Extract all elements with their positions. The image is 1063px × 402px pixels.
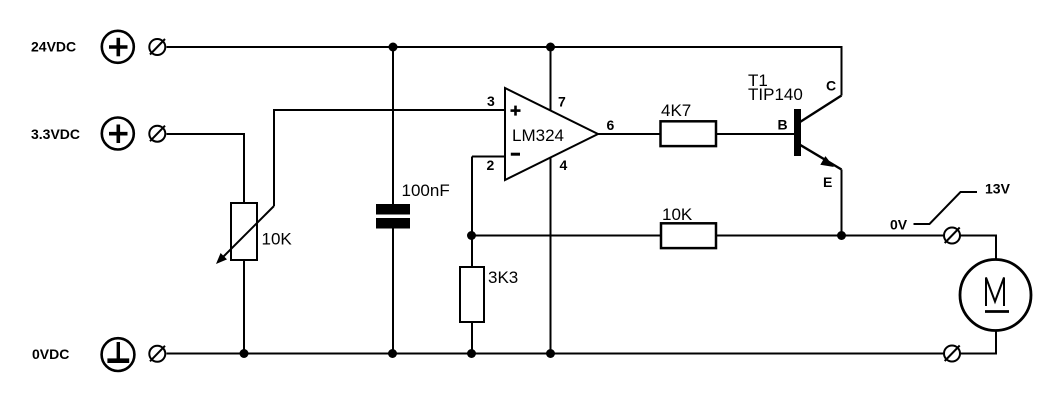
wire 10K to emitter node — [716, 235, 842, 237]
junction dot bottom rail / 3K3 — [467, 349, 476, 358]
wire emitter down to output node — [841, 170, 843, 236]
wire pin 7 to top rail — [550, 47, 552, 111]
wire op-amp output pin 6 — [598, 133, 660, 135]
junction dot bottom rail / potentiometer — [240, 349, 249, 358]
wire motor bottom to 0V pad — [961, 331, 997, 354]
svg-text:E: E — [823, 174, 832, 190]
svg-text:LM324: LM324 — [512, 126, 564, 145]
wire 24VDC top rail — [167, 46, 842, 48]
wire 3K3 bottom to 0V rail — [471, 322, 473, 354]
svg-text:6: 6 — [607, 117, 615, 133]
svg-text:4: 4 — [560, 157, 568, 173]
power terminal + (3.3VDC) — [102, 118, 134, 150]
op-amp U1 LM324 triangle — [505, 88, 598, 180]
wire output pad to motor top — [961, 236, 997, 260]
power terminal + (24VDC) — [102, 31, 134, 63]
wire pin 2 input — [472, 156, 505, 158]
wire 0V bottom rail — [167, 353, 945, 355]
svg-text:10K: 10K — [662, 205, 693, 224]
wire wiper to op-amp pin 3 — [274, 110, 505, 206]
svg-text:3K3: 3K3 — [488, 268, 518, 287]
svg-text:C: C — [826, 78, 836, 94]
op-amp + input mark — [511, 106, 521, 116]
op-amp - input mark — [511, 153, 520, 156]
svg-text:3: 3 — [487, 93, 495, 109]
svg-text:TIP140: TIP140 — [748, 85, 803, 104]
junction dot top rail / capacitor — [389, 43, 398, 52]
wire pin 2 down to feedback node — [471, 157, 473, 268]
svg-text:2: 2 — [487, 157, 495, 173]
wire potentiometer bottom to 0V rail — [243, 260, 245, 354]
wire capacitor top lead — [392, 47, 394, 204]
junction dot bottom rail / pin 4 — [546, 349, 555, 358]
connector pad 3.3VDC — [149, 126, 165, 142]
potentiometer R 10K body — [231, 203, 257, 260]
wire 3.3VDC to potentiometer — [167, 134, 245, 203]
ground terminal (0VDC) — [102, 338, 135, 371]
svg-text:13V: 13V — [985, 181, 1011, 197]
resistor 4K7 body — [661, 121, 717, 146]
wire output node to 0V pad — [842, 235, 945, 237]
svg-text:B: B — [778, 117, 788, 133]
junction dot bottom rail / capacitor — [388, 349, 397, 358]
wire collector to top rail — [841, 46, 843, 96]
junction dot emitter / output — [837, 231, 846, 240]
wire capacitor bottom lead — [392, 229, 394, 354]
connector pad bottom return — [944, 346, 960, 362]
svg-text:0V: 0V — [890, 217, 908, 233]
svg-text:10K: 10K — [262, 230, 293, 249]
svg-text:100nF: 100nF — [402, 181, 450, 200]
transistor Q T1 TIP140 — [794, 96, 842, 170]
resistor 3K3 body — [460, 267, 484, 322]
output range indicator 0V-13V — [914, 192, 978, 224]
junction dot top rail / pin 7 — [546, 43, 555, 52]
junction dot feedback node — [467, 231, 476, 240]
connector pad 0VDC — [149, 346, 165, 362]
svg-text:0VDC: 0VDC — [32, 346, 69, 362]
connector pad output — [944, 228, 960, 244]
motor M — [960, 260, 1031, 331]
wire pin 4 to bottom rail — [550, 158, 552, 354]
svg-text:3.3VDC: 3.3VDC — [31, 126, 80, 142]
connector pad 24VDC — [149, 39, 165, 55]
svg-text:7: 7 — [558, 94, 566, 110]
svg-text:4K7: 4K7 — [661, 101, 691, 120]
wire 4K7 to transistor base — [716, 133, 794, 135]
capacitor C 100nF — [376, 204, 410, 229]
wire feedback node to 10K — [472, 235, 662, 237]
potentiometer wiper arrow — [216, 206, 274, 264]
resistor 10K body — [661, 223, 716, 248]
svg-text:24VDC: 24VDC — [31, 39, 76, 55]
